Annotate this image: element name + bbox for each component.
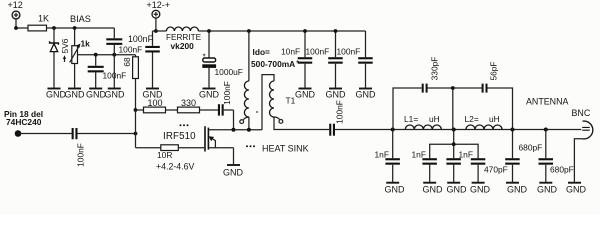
svg-text:100nF: 100nF: [306, 47, 330, 57]
node cap A bottom: [112, 53, 116, 57]
wire feedback to drain: [224, 110, 234, 130]
wire sub-bracket: [430, 130, 478, 159]
capacitor 680pF 1: [505, 130, 520, 183]
adjust arrow annotation: [63, 55, 66, 62]
svg-text:100nF: 100nF: [222, 81, 232, 105]
svg-text:IRF510: IRF510: [163, 131, 196, 142]
capacitor 680pF 2: [539, 130, 554, 183]
ground BNC shell: [566, 183, 587, 195]
label 100: [147, 98, 162, 108]
capacitor 330pF: [422, 84, 428, 93]
capacitor 1nF shunt 3: [446, 158, 461, 182]
supply +12 (right) symbol: [152, 10, 160, 18]
node cap B top: [94, 53, 98, 57]
svg-text:1nF: 1nF: [375, 150, 389, 160]
svg-text:+4.2-4.6V: +4.2-4.6V: [156, 161, 195, 171]
input terminal: [15, 130, 22, 137]
note *** above IRF510: [180, 124, 189, 126]
svg-text:5V6: 5V6: [60, 38, 70, 53]
transistor Q1 IRF510: [205, 126, 234, 164]
resistor 10R: [136, 145, 205, 151]
label 10R: [157, 150, 172, 160]
svg-text:BIAS: BIAS: [70, 14, 91, 24]
node T1 primary top: [247, 29, 251, 33]
connector BNC: [574, 121, 592, 182]
ground 1nF 2: [423, 183, 444, 195]
label 100nF output (rotated): [335, 100, 345, 124]
svg-text:100nF: 100nF: [119, 44, 143, 54]
svg-text:100nF: 100nF: [103, 70, 127, 80]
resistor R 1K label: [38, 14, 49, 24]
supply +12 (left) label: [8, 0, 23, 10]
svg-text:GND: GND: [566, 185, 587, 195]
svg-text:GND: GND: [223, 168, 244, 178]
wire bias line: [47, 27, 115, 29]
ground 680pF 1: [506, 183, 528, 195]
svg-text:GND: GND: [46, 90, 67, 100]
T1 primary terminal circle: [240, 117, 249, 124]
svg-text:ANTENNA: ANTENNA: [526, 97, 568, 107]
label 330: [181, 98, 196, 108]
label 100nF input (rotated): [76, 143, 86, 167]
svg-text:GND: GND: [86, 90, 107, 100]
transformer T1 secondary: [270, 81, 330, 130]
potentiometer 1k label: [81, 39, 91, 49]
wire wiper line: [78, 55, 136, 57]
svg-text:GND: GND: [385, 185, 406, 195]
label T1: [286, 96, 296, 106]
label Ido=: [253, 47, 271, 57]
svg-text:GND: GND: [199, 90, 220, 100]
node gate rail lower: [134, 132, 138, 136]
resistor 68: [133, 57, 139, 110]
wire drain line: [234, 129, 263, 131]
svg-text:56pF: 56pF: [489, 61, 499, 80]
resistor R 1K: [28, 25, 47, 31]
svg-text:L2=: L2=: [465, 114, 479, 124]
node 680pF 2: [544, 128, 548, 132]
node 1000uF tap: [207, 29, 211, 33]
svg-text:L1=: L1=: [404, 114, 418, 124]
node bypass mid: [451, 86, 455, 90]
capacitor 100nF input coupling: [72, 128, 78, 139]
svg-text:100nF: 100nF: [76, 143, 86, 167]
svg-text:+12-+: +12-+: [147, 0, 171, 10]
ground 10nF: [295, 89, 316, 100]
note *** heat sink: [246, 145, 255, 147]
svg-text:HEAT SINK: HEAT SINK: [262, 144, 309, 154]
ground pot: [65, 89, 86, 100]
svg-text:10nF: 10nF: [281, 47, 300, 57]
svg-text:GND: GND: [295, 90, 316, 100]
capacitor 1nF shunt 1: [385, 130, 400, 183]
label 1nF 2: [412, 150, 426, 160]
wire T1 secondary bracket: [262, 75, 274, 130]
capacitor 1000uF electrolytic: [202, 31, 216, 88]
label 470pF: [484, 165, 508, 175]
inductor L1: [405, 125, 441, 130]
label 500-700mA: [251, 58, 300, 69]
resistor 100: [136, 107, 166, 113]
ground source: [223, 165, 244, 178]
note * near 1000uF: [203, 52, 207, 62]
capacitor 100nF decoupling 2: [358, 31, 373, 88]
svg-text:1nF: 1nF: [459, 150, 473, 160]
capacitor 100nF near ferrite: [145, 31, 160, 88]
wire bypass bracket 56pF: [453, 88, 513, 130]
node drain / T1: [247, 128, 251, 132]
ground 1nF 3: [447, 183, 468, 195]
label 680pF 2: [550, 165, 574, 175]
label L1= uH: [404, 114, 440, 124]
capacitor 56pF: [482, 84, 488, 93]
label 680pF 1: [519, 143, 543, 153]
svg-text:100nF: 100nF: [337, 47, 361, 57]
label HEAT SINK: [262, 144, 309, 154]
label 100nF (bias upper): [119, 44, 143, 54]
label FERRITE: [166, 33, 202, 42]
capacitor 100nF (bias upper): [106, 28, 122, 88]
svg-text:100nF: 100nF: [128, 34, 154, 44]
label 100nF near ferrite: [128, 34, 154, 44]
label BNC: [572, 108, 591, 118]
ground 1nF 1: [385, 183, 406, 195]
capacitor 100nF output coupling: [329, 124, 335, 136]
ground ferrite cap: [143, 89, 164, 100]
svg-text:GND: GND: [105, 90, 126, 100]
svg-text:GND: GND: [447, 185, 468, 195]
svg-text:GND: GND: [326, 90, 347, 100]
capacitor 470pF: [471, 158, 486, 182]
svg-text:1nF: 1nF: [412, 150, 426, 160]
node L1-L2: [452, 128, 456, 132]
ground 470pF: [470, 183, 491, 195]
label 100nF (bias lower): [103, 70, 127, 80]
label 1nF 1: [375, 150, 389, 160]
svg-text:GND: GND: [537, 185, 558, 195]
svg-text:GND: GND: [423, 185, 444, 195]
wire bypass bracket 330pF: [393, 88, 453, 130]
wire gate rail down: [135, 110, 137, 148]
transformer T1 primary: [244, 31, 249, 130]
label IRF510: [163, 131, 196, 142]
ground 100nF decoupling 2: [356, 89, 377, 100]
svg-text:GND: GND: [143, 90, 164, 100]
svg-text:uH: uH: [429, 114, 440, 124]
svg-text:10R: 10R: [157, 150, 172, 160]
inductor ferrite choke: [156, 27, 366, 31]
svg-text:100nF: 100nF: [335, 100, 345, 124]
capacitor 1nF shunt 2: [422, 158, 437, 182]
svg-text:680pF: 680pF: [550, 165, 574, 175]
svg-text:1k: 1k: [81, 39, 91, 49]
supply +12 (left) symbol: [12, 11, 20, 19]
label 1nF 3: [459, 150, 473, 160]
wire supply right down: [155, 18, 157, 31]
svg-text:68: 68: [122, 57, 132, 67]
ground 680pF 2: [537, 183, 558, 195]
svg-text:uH: uH: [489, 114, 500, 124]
svg-text:1000uF: 1000uF: [215, 67, 243, 77]
svg-text:Ido=: Ido=: [253, 47, 271, 57]
label BIAS: [70, 14, 91, 24]
node 100nF tap: [334, 29, 338, 33]
resistor 68 label (rotated): [122, 57, 132, 67]
svg-text:GND: GND: [470, 185, 491, 195]
T1 phase dot: [256, 111, 258, 113]
wire filter main line: [335, 129, 581, 131]
svg-text:vk200: vk200: [171, 41, 195, 51]
capacitor 100nF feedback: [218, 104, 224, 115]
svg-text:+12: +12: [8, 0, 23, 10]
ground cap A: [105, 89, 126, 100]
svg-text:470pF: 470pF: [484, 165, 508, 175]
node filter in: [391, 128, 395, 132]
node sub-bracket: [452, 142, 456, 146]
svg-text:680pF: 680pF: [519, 143, 543, 153]
ground zener: [46, 89, 67, 100]
ground cap B: [86, 89, 107, 100]
node 10nF tap: [303, 29, 307, 33]
label +4.2-4.6V: [156, 161, 195, 171]
svg-text:500-700mA: 500-700mA: [251, 59, 295, 69]
node gate rail upper: [134, 108, 138, 112]
wire input line: [18, 133, 136, 135]
label vk200: [171, 41, 195, 51]
capacitor 100nF decoupling 1: [328, 31, 343, 88]
label Pin 18 del: [4, 109, 43, 119]
label 330pF (rotated): [430, 57, 440, 81]
node drain-feedback: [232, 128, 236, 132]
node zener top: [52, 26, 56, 30]
node supply-right junction: [154, 29, 158, 33]
ground 100nF decoupling 1: [326, 89, 347, 100]
inductor L2: [466, 125, 502, 130]
capacitor 100nF (bias lower): [88, 55, 104, 88]
label 74HC240: [6, 117, 42, 127]
label 56pF (rotated): [489, 61, 499, 80]
svg-text:GND: GND: [356, 90, 377, 100]
svg-text:330pF: 330pF: [430, 57, 440, 81]
label L2= uH: [465, 114, 500, 124]
resistor 330: [178, 107, 218, 113]
zener diode 5V6: [50, 28, 59, 88]
ground 1000uF: [199, 89, 220, 100]
svg-text:GND: GND: [65, 90, 86, 100]
label 100nF decoupling 2: [337, 47, 361, 57]
T1 secondary terminal circle: [274, 117, 283, 123]
potentiometer 1k: [70, 28, 81, 88]
label 100nF decoupling 1: [306, 47, 330, 57]
label ANTENNA: [526, 97, 568, 107]
wire 100-330: [166, 109, 178, 111]
wire supply to 1K: [16, 19, 28, 28]
svg-text:74HC240: 74HC240: [6, 117, 42, 127]
label 10nF: [281, 47, 300, 57]
node supply-left junction: [14, 26, 18, 30]
svg-text:GND: GND: [507, 185, 528, 195]
svg-text:1K: 1K: [38, 14, 49, 24]
label 100nF feedback (rotated): [222, 81, 232, 105]
node 680pF 1: [511, 128, 515, 132]
label 1000uF: [215, 67, 243, 77]
label 5V6 (rotated): [60, 38, 70, 53]
node pot top: [73, 26, 77, 30]
supply +12-+ label: [147, 0, 171, 10]
capacitor 10nF decoupling: [298, 31, 313, 88]
svg-text:BNC: BNC: [572, 108, 591, 118]
